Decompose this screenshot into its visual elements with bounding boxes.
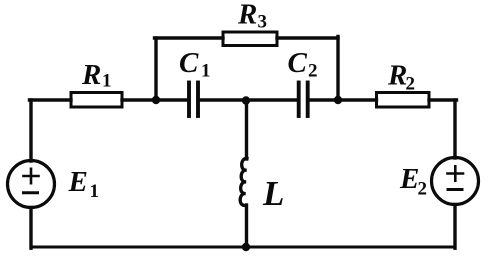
svg-text:R: R bbox=[387, 60, 407, 92]
wire: R1 to C1 bbox=[122, 98, 187, 101]
svg-text:C: C bbox=[179, 47, 199, 79]
svg-text:2: 2 bbox=[406, 74, 416, 95]
svg-text:3: 3 bbox=[258, 12, 268, 33]
wire: top branch right riser down bbox=[336, 37, 339, 101]
resistor R1 bbox=[71, 93, 122, 108]
label L bbox=[262, 174, 284, 213]
svg-text:L: L bbox=[262, 174, 284, 213]
capacitor C2 bbox=[299, 83, 308, 117]
label R3 bbox=[237, 0, 267, 33]
label R2 bbox=[387, 60, 415, 95]
svg-text:2: 2 bbox=[418, 179, 428, 200]
wire: bottom rail bbox=[31, 246, 455, 249]
wire: C1 to center node bbox=[200, 98, 246, 101]
svg-text:E: E bbox=[68, 166, 88, 198]
svg-text:E: E bbox=[399, 163, 419, 195]
inductor L bbox=[240, 158, 247, 205]
wire: right branch down to E2 bbox=[453, 100, 456, 158]
svg-text:1: 1 bbox=[201, 61, 211, 82]
wire: top branch right segment bbox=[277, 36, 338, 39]
svg-text:1: 1 bbox=[90, 181, 100, 202]
wire: middle rail left segment bbox=[30, 98, 72, 101]
capacitor C1 bbox=[189, 83, 198, 117]
label C1 bbox=[179, 47, 211, 82]
svg-text:C: C bbox=[288, 47, 308, 79]
label E2 bbox=[399, 163, 427, 200]
wire: C2 to R2 bbox=[310, 98, 377, 101]
wire: center node to C2 bbox=[246, 98, 297, 101]
wire: top branch left segment bbox=[155, 36, 224, 39]
svg-text:1: 1 bbox=[102, 71, 112, 92]
wire: E1 bottom lead bbox=[29, 208, 32, 249]
node junction (R1/R3 tap) bbox=[152, 96, 160, 104]
label E1 bbox=[68, 166, 100, 202]
wire: riser to top branch bbox=[154, 38, 157, 100]
node junction (bottom of L) bbox=[242, 243, 250, 251]
svg-text:R: R bbox=[81, 59, 101, 91]
wire: L branch upper segment bbox=[245, 100, 248, 159]
source E2 bbox=[432, 158, 479, 205]
wire: R2 to right branch bbox=[429, 98, 457, 101]
source E1 bbox=[8, 161, 55, 208]
wire: left branch top (E1 to middle rail) bbox=[29, 100, 32, 161]
node junction (R3/C2 tap) bbox=[334, 96, 342, 104]
label R1 bbox=[81, 59, 112, 92]
svg-text:R: R bbox=[237, 0, 257, 31]
label C2 bbox=[288, 47, 318, 82]
resistor R3 bbox=[223, 32, 277, 46]
resistor R2 bbox=[377, 93, 430, 108]
wire: E2 bottom lead bbox=[453, 205, 456, 249]
node junction (center top of L) bbox=[242, 96, 250, 104]
svg-text:2: 2 bbox=[308, 61, 318, 82]
wire: L branch lower segment bbox=[245, 205, 248, 247]
